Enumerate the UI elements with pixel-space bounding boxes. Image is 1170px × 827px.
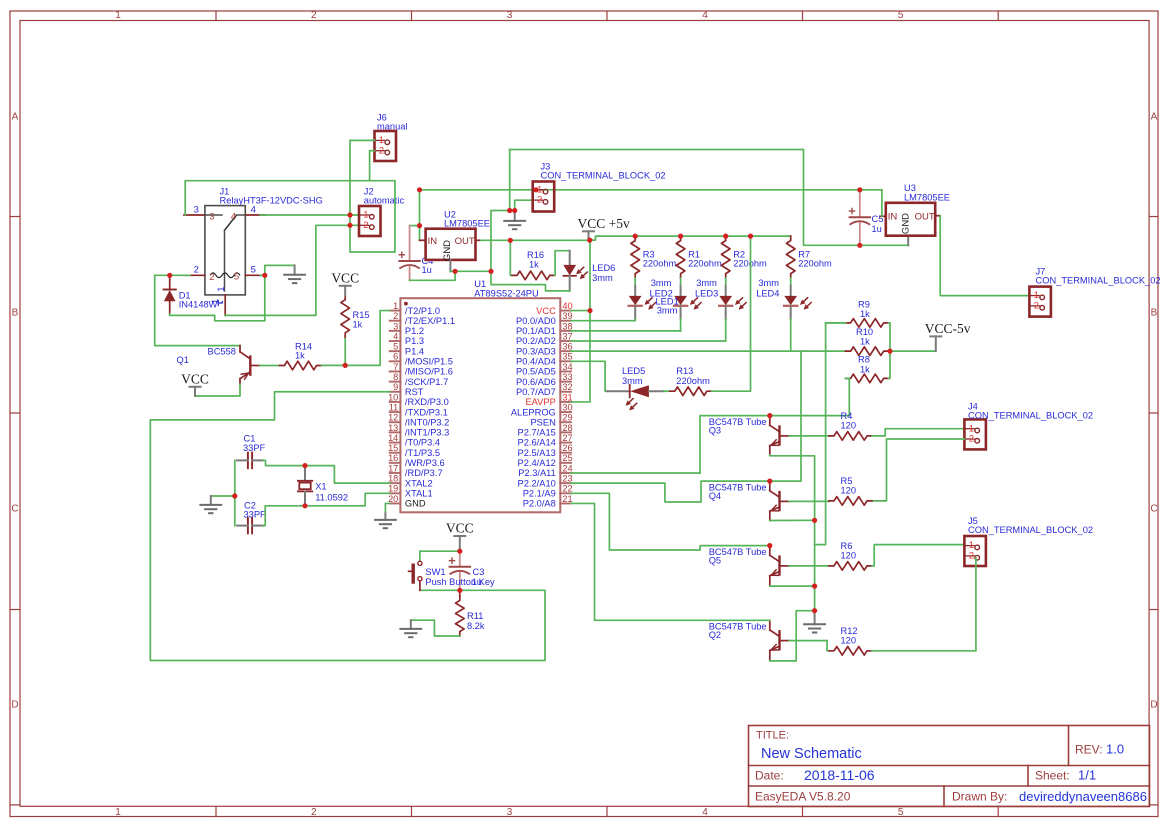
svg-text:IN: IN: [888, 211, 898, 222]
svg-text:1u: 1u: [472, 577, 482, 587]
svg-text:1: 1: [115, 807, 121, 818]
svg-text:P1.2: P1.2: [405, 326, 424, 336]
svg-text:P0.4/AD4: P0.4/AD4: [516, 357, 556, 367]
svg-text:33: 33: [562, 372, 572, 382]
svg-text:RelayHT3F-12VDC-SHG: RelayHT3F-12VDC-SHG: [220, 196, 323, 206]
svg-text:1.0: 1.0: [1106, 742, 1124, 757]
svg-text:P0.2/AD2: P0.2/AD2: [516, 336, 556, 346]
svg-text:GND: GND: [901, 213, 912, 234]
svg-text:3mm: 3mm: [657, 306, 678, 316]
svg-text:2018-11-06: 2018-11-06: [804, 767, 875, 783]
svg-text:2: 2: [311, 10, 317, 21]
svg-text:RST: RST: [405, 387, 424, 397]
svg-text:VCC: VCC: [536, 306, 556, 316]
svg-text:30: 30: [562, 402, 572, 412]
svg-text:VCC: VCC: [446, 521, 474, 536]
svg-text:35: 35: [562, 352, 572, 362]
svg-text:Q3: Q3: [709, 426, 721, 436]
svg-text:23: 23: [562, 474, 572, 484]
svg-text:X1: X1: [315, 481, 326, 491]
svg-text:R10: R10: [856, 327, 873, 337]
svg-text:P0.3/AD3: P0.3/AD3: [516, 346, 556, 356]
svg-text:38: 38: [562, 321, 572, 331]
svg-text:24: 24: [562, 463, 572, 473]
svg-text:2: 2: [209, 272, 214, 283]
svg-text:R13: R13: [676, 366, 693, 376]
svg-text:3mm: 3mm: [696, 278, 717, 288]
svg-text:Q5: Q5: [709, 556, 721, 566]
svg-text:120: 120: [841, 420, 857, 430]
svg-text:2: 2: [1034, 301, 1039, 312]
svg-text:/T2/P1.0: /T2/P1.0: [405, 306, 440, 316]
svg-text:P2.0/A8: P2.0/A8: [523, 499, 556, 509]
svg-text:4: 4: [251, 205, 256, 216]
svg-text:/INT1/P3.3: /INT1/P3.3: [405, 428, 449, 438]
svg-text:Sheet:: Sheet:: [1035, 769, 1070, 783]
svg-text:P2.3/A11: P2.3/A11: [518, 468, 556, 478]
svg-text:U3: U3: [904, 183, 916, 193]
svg-text:/MISO/P1.6: /MISO/P1.6: [405, 367, 453, 377]
svg-text:CON_TERMINAL_BLOCK_02: CON_TERMINAL_BLOCK_02: [1036, 276, 1161, 286]
svg-text:GND: GND: [442, 240, 453, 261]
svg-text:P0.0/AD0: P0.0/AD0: [516, 316, 556, 326]
svg-text:14: 14: [388, 433, 398, 443]
svg-text:REV:: REV:: [1075, 743, 1103, 757]
svg-text:R15: R15: [353, 310, 370, 320]
svg-text:39: 39: [562, 311, 572, 321]
svg-text:220ohm: 220ohm: [688, 258, 722, 268]
svg-text:/T1/P3.5: /T1/P3.5: [405, 448, 440, 458]
svg-text:XTAL2: XTAL2: [405, 478, 433, 488]
svg-text:VCC: VCC: [181, 371, 209, 386]
svg-text:3: 3: [194, 205, 199, 216]
svg-text:2: 2: [311, 807, 317, 818]
svg-text:OUT: OUT: [915, 211, 935, 222]
svg-text:1k: 1k: [529, 259, 539, 269]
svg-text:C: C: [1150, 504, 1157, 515]
svg-text:3: 3: [209, 212, 214, 223]
svg-text:2: 2: [969, 434, 974, 445]
svg-text:IN: IN: [428, 236, 438, 247]
svg-text:CON_TERMINAL_BLOCK_02: CON_TERMINAL_BLOCK_02: [968, 410, 1093, 420]
svg-text:5: 5: [234, 272, 239, 283]
svg-text:17: 17: [388, 463, 398, 473]
svg-text:devireddynaveen8686: devireddynaveen8686: [1019, 789, 1147, 804]
svg-text:Q4: Q4: [709, 491, 721, 501]
svg-text:manual: manual: [377, 122, 408, 132]
svg-text:15: 15: [388, 443, 398, 453]
svg-text:22: 22: [562, 484, 572, 494]
svg-text:LM7805EE: LM7805EE: [904, 193, 950, 203]
svg-text:CON_TERMINAL_BLOCK_02: CON_TERMINAL_BLOCK_02: [541, 171, 666, 181]
svg-text:1k: 1k: [860, 337, 870, 347]
svg-text:/RD/P3.7: /RD/P3.7: [405, 468, 443, 478]
svg-text:2: 2: [194, 264, 199, 275]
svg-text:P2.4/A12: P2.4/A12: [518, 458, 556, 468]
svg-text:36: 36: [562, 342, 572, 352]
svg-text:27: 27: [562, 433, 572, 443]
svg-text:4: 4: [393, 331, 398, 341]
svg-text:ALEPROG: ALEPROG: [511, 407, 556, 417]
svg-text:P0.6/AD6: P0.6/AD6: [516, 377, 556, 387]
svg-text:1u: 1u: [422, 265, 432, 275]
svg-text:Date:: Date:: [755, 769, 784, 783]
svg-text:3: 3: [507, 10, 513, 21]
svg-text:5: 5: [393, 342, 398, 352]
svg-text:20: 20: [388, 494, 398, 504]
svg-text:33PF: 33PF: [244, 509, 267, 519]
svg-text:BC558: BC558: [208, 346, 236, 356]
svg-text:37: 37: [562, 331, 572, 341]
svg-text:10: 10: [388, 392, 398, 402]
svg-text:1u: 1u: [872, 224, 882, 234]
svg-text:IN4148W: IN4148W: [179, 299, 218, 309]
svg-text:VCC-5v: VCC-5v: [925, 321, 971, 336]
svg-text:P2.5/A13: P2.5/A13: [518, 448, 556, 458]
svg-text:Q2: Q2: [709, 630, 721, 640]
svg-text:2: 2: [363, 220, 368, 231]
svg-text:LED6: LED6: [592, 263, 615, 273]
svg-text:3mm: 3mm: [622, 376, 643, 386]
svg-text:1: 1: [393, 301, 398, 311]
svg-text:40: 40: [562, 301, 572, 311]
svg-text:4: 4: [702, 10, 708, 21]
svg-text:R8: R8: [858, 355, 870, 365]
svg-text:1k: 1k: [353, 320, 363, 330]
svg-text:18: 18: [388, 474, 398, 484]
svg-text:D: D: [1150, 700, 1157, 711]
svg-text:P1.3: P1.3: [405, 336, 424, 346]
svg-text:1: 1: [216, 286, 227, 291]
svg-text:120: 120: [841, 550, 857, 560]
svg-text:PSEN: PSEN: [530, 417, 555, 427]
svg-text:31: 31: [562, 392, 572, 402]
svg-text:CON_TERMINAL_BLOCK_02: CON_TERMINAL_BLOCK_02: [968, 525, 1093, 535]
svg-text:/RXD/P3.0: /RXD/P3.0: [405, 397, 449, 407]
svg-text:OUT: OUT: [455, 236, 475, 247]
svg-text:/SCK/P1.7: /SCK/P1.7: [405, 377, 448, 387]
svg-text:AT89S52-24PU: AT89S52-24PU: [474, 288, 538, 298]
svg-text:Drawn By:: Drawn By:: [952, 790, 1007, 804]
svg-text:16: 16: [388, 453, 398, 463]
svg-text:A: A: [12, 112, 19, 123]
svg-text:P0.7/AD7: P0.7/AD7: [516, 387, 556, 397]
svg-text:12: 12: [388, 413, 398, 423]
svg-text:2: 2: [379, 145, 384, 156]
svg-text:LED3: LED3: [695, 288, 718, 298]
svg-text:B: B: [12, 308, 19, 319]
svg-text:LM7805EE: LM7805EE: [444, 218, 490, 228]
svg-text:120: 120: [841, 485, 857, 495]
svg-text:220ohm: 220ohm: [643, 258, 677, 268]
svg-text:34: 34: [562, 362, 572, 372]
svg-text:32: 32: [562, 382, 572, 392]
svg-text:R9: R9: [858, 299, 870, 309]
svg-text:VCC: VCC: [331, 270, 359, 285]
svg-text:C: C: [11, 504, 18, 515]
svg-text:120: 120: [841, 635, 857, 645]
svg-text:11.0592: 11.0592: [315, 492, 348, 502]
svg-text:P2.6/A14: P2.6/A14: [518, 438, 556, 448]
svg-text:3mm: 3mm: [651, 278, 672, 288]
svg-text:XTAL1: XTAL1: [405, 489, 433, 499]
svg-text:5: 5: [898, 807, 904, 818]
svg-text:2: 2: [969, 551, 974, 562]
svg-text:1k: 1k: [860, 364, 870, 374]
svg-text:8.2k: 8.2k: [467, 621, 485, 631]
svg-text:8: 8: [393, 372, 398, 382]
svg-text:/MOSI/P1.5: /MOSI/P1.5: [405, 357, 453, 367]
svg-text:P2.2/A10: P2.2/A10: [518, 478, 556, 488]
svg-text:220ohm: 220ohm: [676, 376, 710, 386]
svg-text:P0.5/AD5: P0.5/AD5: [516, 367, 556, 377]
svg-text:LED4: LED4: [756, 288, 779, 298]
svg-text:2: 2: [537, 195, 542, 206]
svg-text:5: 5: [898, 10, 904, 21]
svg-text:/T0/P3.4: /T0/P3.4: [405, 438, 440, 448]
svg-text:Push Button Key: Push Button Key: [425, 577, 495, 587]
svg-text:33PF: 33PF: [243, 443, 266, 453]
svg-text:EAVPP: EAVPP: [525, 397, 555, 407]
svg-text:/TXD/P3.1: /TXD/P3.1: [405, 407, 448, 417]
svg-text:4: 4: [702, 807, 708, 818]
svg-text:GND: GND: [405, 499, 426, 509]
svg-text:EasyEDA V5.8.20: EasyEDA V5.8.20: [755, 790, 851, 804]
svg-text:SW1: SW1: [425, 567, 445, 577]
svg-text:9: 9: [393, 382, 398, 392]
svg-text:1: 1: [115, 10, 121, 21]
svg-text:LED5: LED5: [622, 366, 645, 376]
svg-text:2: 2: [393, 311, 398, 321]
svg-text:220ohm: 220ohm: [798, 258, 832, 268]
svg-text:28: 28: [562, 423, 572, 433]
svg-text:D: D: [11, 700, 18, 711]
svg-text:1k: 1k: [860, 309, 870, 319]
svg-text:P2.1/A9: P2.1/A9: [523, 489, 556, 499]
svg-text:3mm: 3mm: [758, 278, 779, 288]
svg-text:3mm: 3mm: [592, 273, 613, 283]
svg-text:B: B: [1151, 308, 1158, 319]
svg-text:TITLE:: TITLE:: [756, 730, 789, 742]
svg-text:/T2/EX/P1.1: /T2/EX/P1.1: [405, 316, 455, 326]
svg-text:/WR/P3.6: /WR/P3.6: [405, 458, 445, 468]
svg-text:1/1: 1/1: [1078, 768, 1096, 783]
svg-text:P0.1/AD1: P0.1/AD1: [516, 326, 556, 336]
svg-text:VCC +5v: VCC +5v: [578, 216, 630, 231]
svg-text:P2.7/A15: P2.7/A15: [518, 428, 556, 438]
svg-text:3: 3: [393, 321, 398, 331]
svg-text:New Schematic: New Schematic: [761, 746, 862, 762]
svg-text:1k: 1k: [295, 350, 305, 360]
svg-text:A: A: [1151, 112, 1158, 123]
svg-text:6: 6: [393, 352, 398, 362]
svg-text:P1.4: P1.4: [405, 346, 424, 356]
svg-text:7: 7: [393, 362, 398, 372]
svg-text:automatic: automatic: [364, 196, 405, 206]
svg-text:11: 11: [389, 402, 399, 412]
svg-text:19: 19: [388, 484, 398, 494]
svg-text:/INT0/P3.2: /INT0/P3.2: [405, 417, 449, 427]
svg-text:13: 13: [388, 423, 398, 433]
svg-text:Q1: Q1: [177, 355, 189, 365]
svg-text:29: 29: [562, 413, 572, 423]
svg-text:25: 25: [562, 453, 572, 463]
svg-text:4: 4: [231, 211, 236, 222]
svg-text:26: 26: [562, 443, 572, 453]
svg-text:R11: R11: [467, 611, 483, 621]
svg-text:21: 21: [562, 494, 572, 504]
svg-text:5: 5: [251, 264, 256, 275]
svg-text:C3: C3: [473, 567, 485, 577]
svg-text:3: 3: [507, 807, 513, 818]
